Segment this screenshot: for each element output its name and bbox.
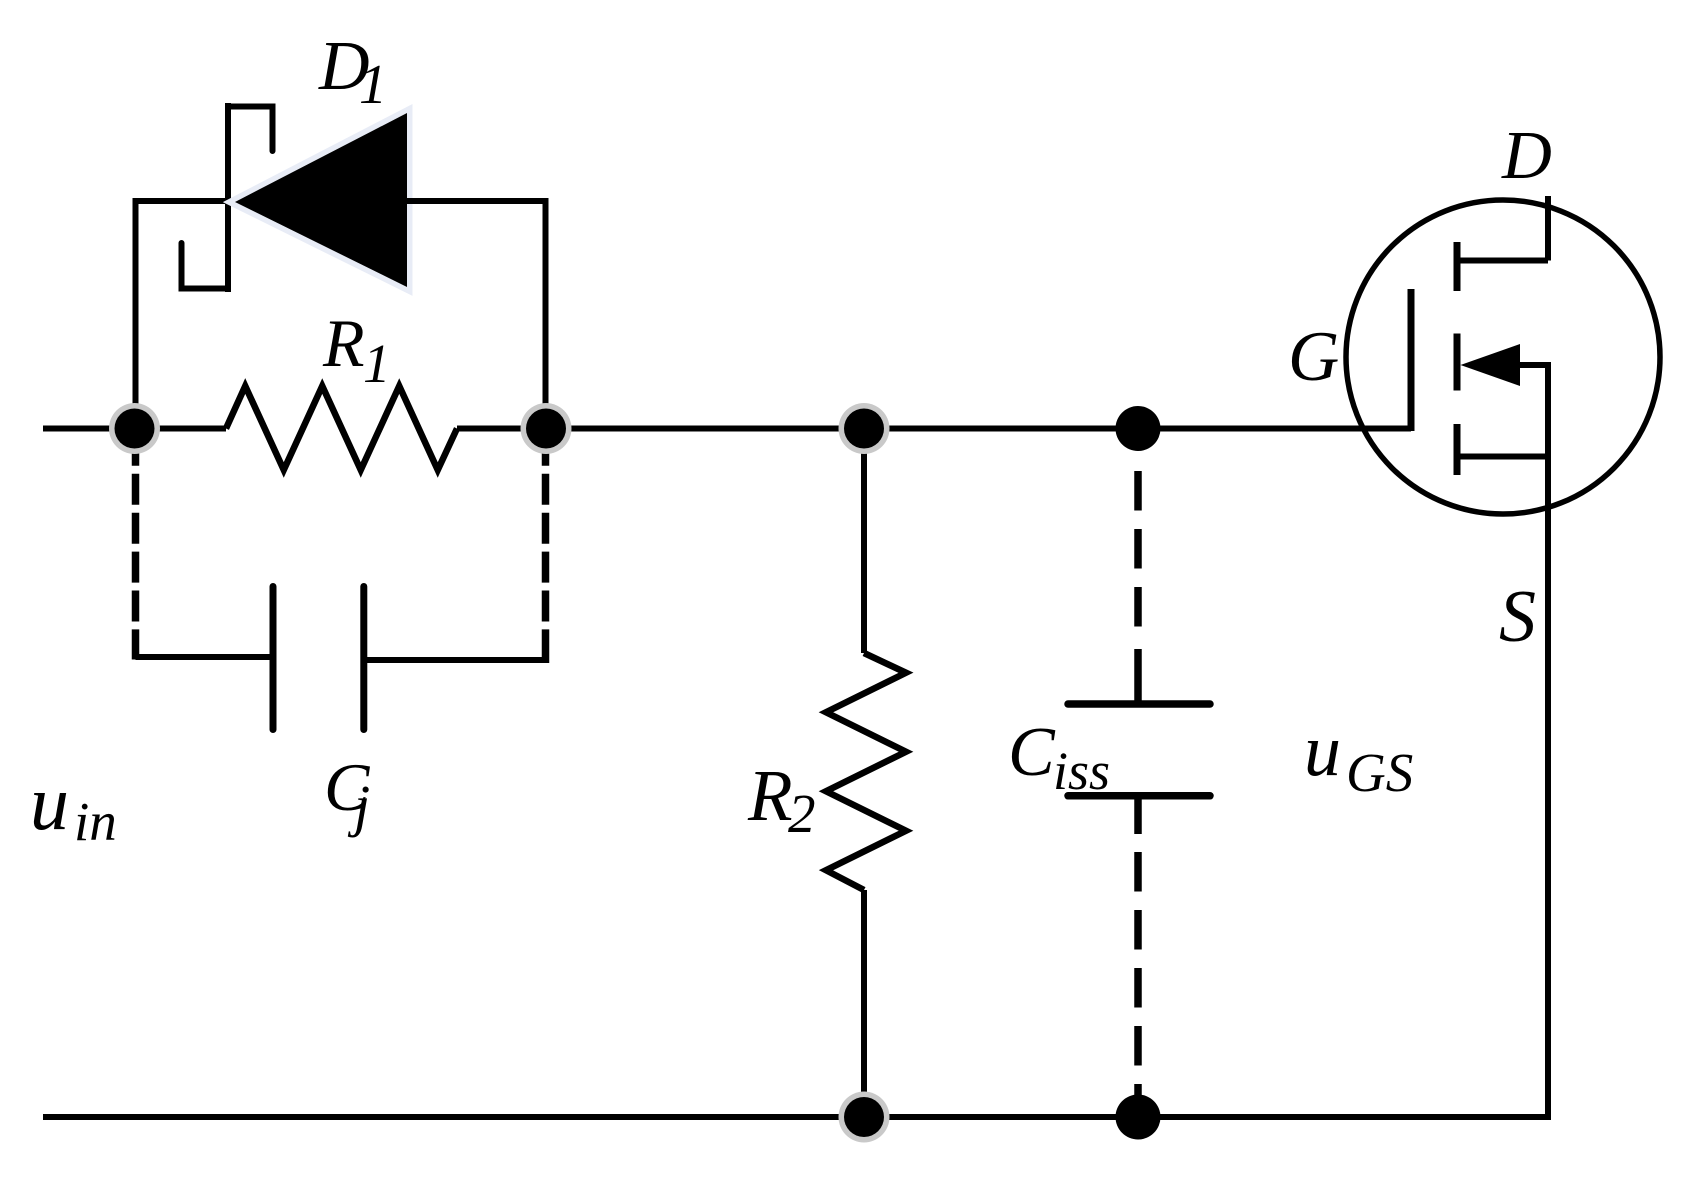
svg-text:R: R	[322, 305, 365, 381]
svg-text:G: G	[1288, 318, 1339, 396]
svg-text:C: C	[1008, 714, 1056, 791]
svg-text:GS: GS	[1346, 742, 1413, 803]
svg-text:in: in	[74, 791, 117, 852]
svg-text:R: R	[747, 755, 793, 836]
svg-text:D: D	[1501, 117, 1552, 193]
svg-text:S: S	[1499, 576, 1536, 658]
svg-text:2: 2	[788, 783, 816, 844]
svg-text:1: 1	[363, 333, 391, 394]
svg-text:iss: iss	[1053, 741, 1110, 801]
svg-text:u: u	[1304, 710, 1341, 792]
svg-text:1: 1	[359, 54, 387, 116]
svg-text:u: u	[30, 759, 69, 846]
